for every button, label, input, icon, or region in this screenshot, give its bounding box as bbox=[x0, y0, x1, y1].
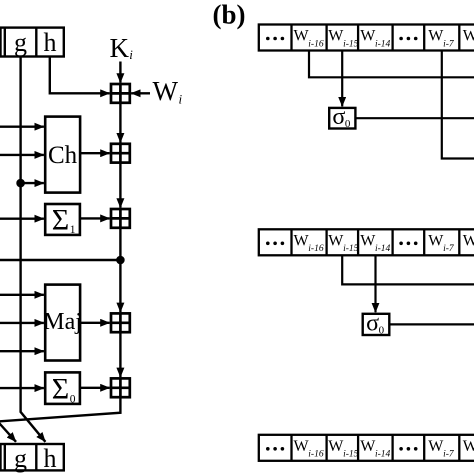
register row top (cropped: f|g|h) bbox=[0, 28, 64, 57]
wire Maj output to adder4 bbox=[80, 322, 110, 324]
wire e input to Sigma1 bbox=[0, 217, 44, 219]
svg-text:W: W bbox=[360, 438, 376, 455]
svg-text:i-16: i-16 bbox=[308, 244, 324, 254]
wire d-line to left edge bbox=[0, 259, 120, 261]
row1 sigma0 box bbox=[329, 108, 355, 129]
svg-text:W: W bbox=[463, 233, 474, 250]
svg-text:W: W bbox=[360, 28, 376, 45]
svg-text:i-15: i-15 bbox=[343, 39, 359, 49]
svg-text:h: h bbox=[44, 28, 57, 57]
wire b input to Maj bbox=[0, 322, 44, 324]
svg-text:W: W bbox=[428, 28, 444, 45]
svg-text:i: i bbox=[129, 47, 133, 62]
wire W_i left into adder 1 bbox=[131, 92, 150, 94]
wire Sigma0 output to adder5 bbox=[80, 387, 110, 389]
Sigma0 box bbox=[45, 372, 80, 404]
wire c input to Maj bbox=[0, 350, 44, 352]
svg-text:i: i bbox=[179, 92, 183, 107]
svg-text:σ: σ bbox=[366, 310, 379, 336]
wire h to adder 1 bbox=[50, 57, 110, 94]
adder 2 (+Ch) bbox=[111, 144, 130, 163]
svg-text:i-14: i-14 bbox=[375, 450, 391, 460]
svg-text:σ: σ bbox=[332, 104, 345, 130]
adder 1 (K+W) bbox=[111, 84, 130, 103]
wire a input to Maj bbox=[0, 294, 44, 296]
row2 wire sigma0 output right bbox=[389, 323, 474, 325]
svg-text:i-7: i-7 bbox=[443, 39, 455, 49]
adder 3 (+Sigma1) bbox=[111, 209, 130, 228]
wire adder2 to adder3 bbox=[119, 163, 121, 208]
wire f input to Ch bbox=[0, 154, 44, 156]
svg-text:W: W bbox=[328, 28, 344, 45]
wire e input to Ch bbox=[0, 125, 44, 127]
svg-text:K: K bbox=[110, 33, 130, 63]
svg-text:i-15: i-15 bbox=[343, 244, 359, 254]
row1 wire W i-16 step right bbox=[309, 51, 474, 78]
junction dot T1 bbox=[116, 256, 125, 265]
Maj box bbox=[45, 285, 80, 361]
wire adder3 down to adder4 bbox=[119, 228, 121, 312]
row1 wire W i-7 down and right bbox=[442, 51, 474, 159]
message schedule array row 2 bbox=[259, 229, 474, 255]
adder 4 (+Maj) bbox=[111, 313, 130, 332]
svg-text:Maj: Maj bbox=[43, 309, 82, 335]
svg-text:W: W bbox=[153, 76, 179, 106]
row2 dots cell bbox=[266, 242, 284, 246]
svg-text:h: h bbox=[44, 444, 57, 473]
wire new-a feedback from adder chain to left edge bbox=[0, 397, 120, 422]
svg-text:W: W bbox=[328, 233, 344, 250]
junction dot on g line bbox=[16, 179, 25, 188]
svg-text:0: 0 bbox=[70, 394, 76, 406]
svg-text:Ch: Ch bbox=[48, 142, 78, 169]
message schedule array row 3 bbox=[259, 435, 474, 461]
svg-text:0: 0 bbox=[379, 324, 385, 336]
svg-text:g: g bbox=[14, 28, 27, 57]
svg-text:i-14: i-14 bbox=[375, 244, 391, 254]
row1 dots cell 2 bbox=[399, 37, 417, 41]
svg-text:W: W bbox=[328, 438, 344, 455]
wire g to output h (vertical then diagonal arrow) bbox=[21, 57, 46, 442]
svg-text:i-7: i-7 bbox=[443, 244, 455, 254]
register row bottom (output row) bbox=[0, 444, 64, 470]
svg-text:W: W bbox=[294, 28, 310, 45]
svg-text:0: 0 bbox=[345, 118, 351, 130]
row2 sigma0 box bbox=[363, 314, 390, 335]
row3 dots cell bbox=[266, 447, 284, 451]
svg-text:Σ: Σ bbox=[52, 373, 69, 406]
adder 5 (+Sigma0) bbox=[111, 378, 130, 397]
wire Ch output to adder2 bbox=[80, 152, 110, 154]
Ch box U-Ch bbox=[45, 117, 80, 193]
svg-text:W: W bbox=[428, 233, 444, 250]
row1 dots cell bbox=[266, 37, 284, 41]
svg-text:i-7: i-7 bbox=[443, 450, 455, 460]
svg-text:1: 1 bbox=[70, 224, 76, 236]
svg-text:i-16: i-16 bbox=[308, 450, 324, 460]
svg-text:W: W bbox=[360, 233, 376, 250]
svg-text:Σ: Σ bbox=[52, 203, 69, 236]
svg-text:W: W bbox=[294, 233, 310, 250]
Sigma1 box bbox=[45, 204, 80, 235]
svg-text:W: W bbox=[463, 28, 474, 45]
svg-text:W: W bbox=[463, 438, 474, 455]
row1 wire sigma0 output right bbox=[355, 117, 474, 119]
wire K_i down into adder 1 bbox=[119, 62, 121, 83]
message schedule array row 1 bbox=[259, 25, 474, 51]
svg-text:W: W bbox=[294, 438, 310, 455]
svg-text:i-15: i-15 bbox=[343, 450, 359, 460]
row2 dots cell 2 bbox=[399, 242, 417, 246]
svg-text:i-16: i-16 bbox=[308, 39, 324, 49]
row2 wire W i-14 down to sigma0 bbox=[374, 255, 376, 312]
svg-text:g: g bbox=[14, 444, 27, 473]
wire adder1 to adder2 bbox=[119, 103, 121, 143]
svg-text:(b): (b) bbox=[213, 0, 246, 30]
svg-text:i-14: i-14 bbox=[375, 39, 391, 49]
wire Sigma1 output to adder3 bbox=[80, 217, 110, 219]
row3 dots cell 2 bbox=[399, 447, 417, 451]
wire a input to Sigma0 bbox=[0, 387, 44, 389]
wire adder4 to adder5 bbox=[119, 332, 121, 377]
svg-text:W: W bbox=[428, 438, 444, 455]
row2 wire W i-15 step right bbox=[342, 255, 474, 284]
wire g input to Ch bbox=[21, 182, 44, 184]
row1 wire W i-15 down to sigma0 bbox=[341, 51, 343, 107]
wire f to output g (diagonal arrow from left edge) bbox=[0, 421, 16, 442]
